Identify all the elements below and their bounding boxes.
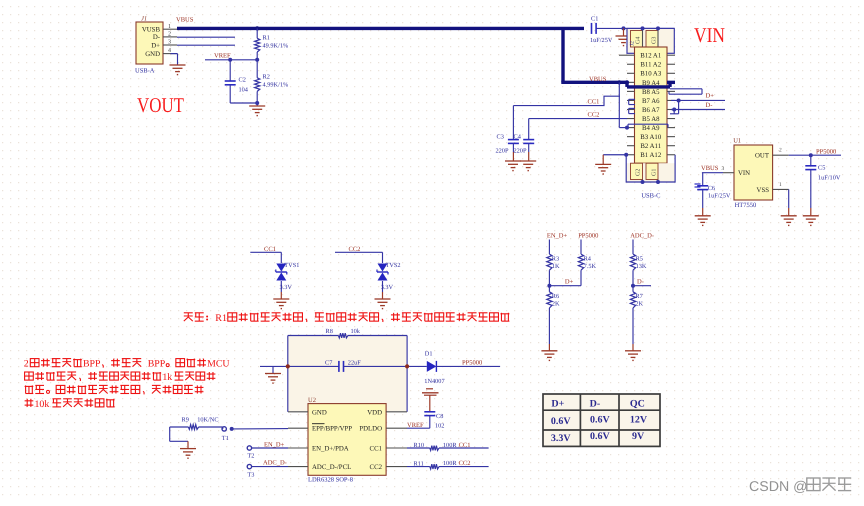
- svg-text:VREF: VREF: [407, 422, 424, 429]
- svg-text:PP5000: PP5000: [816, 149, 836, 156]
- svg-text:B8 A5: B8 A5: [642, 89, 660, 96]
- svg-text:USB-C: USB-C: [641, 193, 660, 200]
- svg-text:ADC_D-: ADC_D-: [263, 459, 287, 466]
- svg-text:3.3V: 3.3V: [381, 284, 394, 291]
- svg-text:TVS1: TVS1: [284, 262, 299, 269]
- svg-text:R1: R1: [263, 34, 270, 41]
- svg-text:B6 A7: B6 A7: [642, 107, 660, 114]
- svg-text:CSDN @: CSDN @: [749, 479, 808, 495]
- svg-text:R5: R5: [636, 255, 643, 262]
- svg-text:9V: 9V: [632, 431, 645, 442]
- svg-text:102: 102: [435, 422, 444, 429]
- svg-text:1: 1: [779, 182, 782, 188]
- svg-text:VSS: VSS: [757, 187, 770, 194]
- svg-text:D-: D-: [153, 34, 161, 41]
- svg-text:R9: R9: [182, 417, 189, 424]
- svg-text:J1: J1: [141, 16, 147, 23]
- svg-text:R1: R1: [215, 313, 227, 324]
- svg-text:1K: 1K: [552, 263, 560, 270]
- svg-text:D-: D-: [706, 102, 713, 109]
- svg-text:GND: GND: [312, 409, 327, 416]
- svg-text:10K/NC: 10K/NC: [197, 417, 218, 424]
- svg-text:B1 A12: B1 A12: [640, 152, 662, 159]
- svg-text:D+: D+: [565, 278, 574, 285]
- svg-text:PDLDO: PDLDO: [359, 426, 382, 433]
- svg-text:220P: 220P: [496, 148, 509, 155]
- svg-text:VIN: VIN: [738, 170, 750, 177]
- svg-text:CC1: CC1: [459, 442, 471, 449]
- svg-text:B3 A10: B3 A10: [640, 134, 662, 141]
- svg-text:1uF/25V: 1uF/25V: [708, 193, 731, 200]
- svg-text:2K: 2K: [552, 300, 560, 307]
- svg-text:D+: D+: [551, 398, 564, 409]
- svg-text:12V: 12V: [630, 415, 648, 426]
- svg-text:220P: 220P: [514, 148, 527, 155]
- svg-text:VIN: VIN: [694, 23, 725, 47]
- svg-text:VBUS: VBUS: [701, 165, 719, 172]
- svg-text:2: 2: [779, 148, 782, 154]
- svg-text:OUT: OUT: [755, 153, 770, 160]
- svg-text:1uF/10V: 1uF/10V: [818, 175, 841, 182]
- svg-text:VDD: VDD: [367, 409, 382, 416]
- svg-text:CC2: CC2: [588, 112, 600, 119]
- svg-text:G3: G3: [652, 37, 658, 44]
- svg-text:HT7550: HT7550: [735, 202, 757, 209]
- svg-text:100R: 100R: [443, 442, 457, 449]
- svg-text:CC1: CC1: [588, 98, 600, 105]
- svg-text:T1: T1: [222, 435, 229, 442]
- svg-text:GND: GND: [145, 51, 160, 58]
- svg-text:B4 A9: B4 A9: [642, 125, 660, 132]
- svg-text:C6: C6: [708, 185, 715, 192]
- svg-text:EN_D+: EN_D+: [547, 232, 568, 239]
- svg-text:LDR6328 SOP-8: LDR6328 SOP-8: [308, 477, 353, 484]
- svg-text:T2: T2: [247, 453, 254, 460]
- svg-text:QC: QC: [630, 398, 645, 409]
- svg-text:R2: R2: [263, 74, 270, 81]
- svg-text:R4: R4: [584, 255, 592, 262]
- svg-text:B5 A8: B5 A8: [642, 116, 660, 123]
- svg-text:3: 3: [168, 40, 171, 46]
- svg-text:CC1: CC1: [370, 446, 382, 453]
- svg-text:C5: C5: [818, 165, 825, 172]
- svg-text:3: 3: [722, 166, 725, 172]
- svg-text:C2: C2: [239, 77, 246, 84]
- svg-text:CC2: CC2: [459, 460, 471, 467]
- svg-text:J2: J2: [630, 41, 636, 46]
- svg-text:4.99K/1%: 4.99K/1%: [263, 82, 289, 89]
- svg-text:T3: T3: [247, 472, 254, 479]
- svg-text:100R: 100R: [443, 460, 457, 467]
- svg-text:U1: U1: [733, 138, 741, 145]
- svg-text:B10 A3: B10 A3: [640, 71, 662, 78]
- svg-text:B7 A6: B7 A6: [642, 98, 660, 105]
- svg-text:2K: 2K: [635, 300, 643, 307]
- svg-text:ADC_D-/PCL: ADC_D-/PCL: [312, 464, 351, 471]
- svg-text:VOUT: VOUT: [137, 93, 184, 117]
- svg-text:G2: G2: [636, 169, 642, 176]
- svg-text:VREF: VREF: [214, 53, 231, 60]
- svg-text:10k: 10k: [351, 328, 361, 335]
- svg-text:C4: C4: [514, 134, 522, 141]
- svg-text:VBUS: VBUS: [176, 17, 194, 24]
- svg-text:0.6V: 0.6V: [590, 431, 611, 442]
- svg-text:1N4007: 1N4007: [424, 378, 444, 385]
- svg-text:B11 A2: B11 A2: [640, 62, 661, 69]
- svg-text:G1: G1: [652, 169, 658, 176]
- svg-text:13K: 13K: [636, 263, 647, 270]
- svg-text:R11: R11: [414, 460, 424, 467]
- svg-text:BPP: BPP: [83, 359, 101, 370]
- svg-text:R8: R8: [326, 328, 333, 335]
- svg-text:VBUS: VBUS: [589, 76, 607, 83]
- svg-text:49.9K/1%: 49.9K/1%: [263, 42, 289, 49]
- svg-text:0.6V: 0.6V: [551, 416, 572, 427]
- svg-text:R7: R7: [635, 293, 642, 300]
- svg-text:22uF: 22uF: [348, 360, 361, 367]
- svg-text:C8: C8: [436, 413, 443, 420]
- svg-text:1uF/25V: 1uF/25V: [590, 37, 613, 44]
- svg-text:D-: D-: [637, 278, 644, 285]
- svg-text:EN_D+: EN_D+: [264, 441, 285, 448]
- svg-text:EPP/BPP/VPP: EPP/BPP/VPP: [312, 426, 352, 433]
- svg-text:D-: D-: [590, 398, 601, 409]
- svg-text:BPP: BPP: [148, 359, 166, 370]
- svg-text:MCU: MCU: [207, 359, 229, 370]
- svg-text:1: 1: [168, 24, 171, 30]
- svg-text:G4: G4: [636, 37, 642, 44]
- svg-text:R10: R10: [414, 442, 425, 449]
- svg-text:ADC_D-: ADC_D-: [630, 232, 654, 239]
- svg-text:B12 A1: B12 A1: [640, 53, 661, 60]
- svg-text:PP5000: PP5000: [578, 232, 598, 239]
- svg-text:R3: R3: [552, 255, 559, 262]
- svg-text:USB-A: USB-A: [135, 67, 155, 74]
- svg-text:2: 2: [24, 359, 29, 370]
- svg-text:3.3V: 3.3V: [551, 433, 572, 444]
- svg-text:C7: C7: [325, 360, 332, 367]
- svg-text:CC2: CC2: [370, 464, 383, 471]
- svg-text:7.5K: 7.5K: [584, 263, 597, 270]
- svg-text:D+: D+: [706, 92, 715, 99]
- svg-text:C3: C3: [497, 134, 504, 141]
- svg-text:3.3V: 3.3V: [280, 284, 293, 291]
- svg-text:C1: C1: [591, 16, 598, 23]
- svg-text:EN_D+/PDA: EN_D+/PDA: [312, 446, 349, 453]
- svg-text:PP5000: PP5000: [462, 360, 482, 367]
- svg-text:10k: 10k: [35, 399, 50, 410]
- svg-text:2: 2: [168, 32, 171, 38]
- svg-text:D1: D1: [425, 350, 433, 357]
- svg-text:B2 A11: B2 A11: [640, 143, 661, 150]
- svg-text:104: 104: [239, 87, 249, 94]
- svg-text:VUSB: VUSB: [142, 27, 161, 34]
- svg-text:TVS2: TVS2: [386, 262, 401, 269]
- svg-text:1k: 1k: [162, 372, 172, 383]
- svg-text:D+: D+: [151, 42, 160, 49]
- svg-text:R6: R6: [552, 293, 559, 300]
- svg-text:0.6V: 0.6V: [590, 415, 611, 426]
- svg-text:U2: U2: [308, 397, 316, 404]
